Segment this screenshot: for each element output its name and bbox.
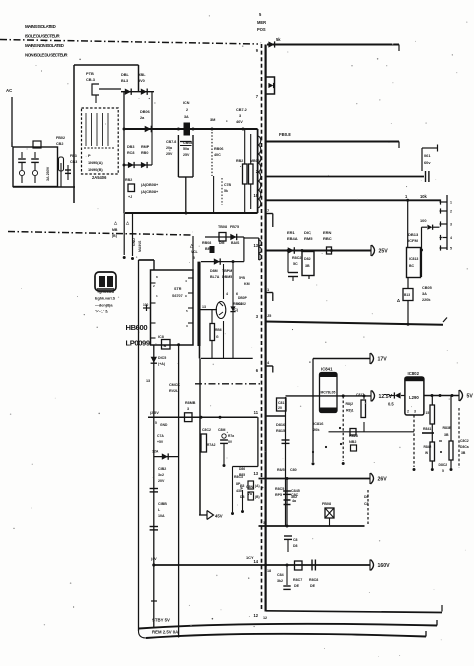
svg-text:14: 14	[253, 559, 258, 564]
svg-text:S6707: S6707	[172, 294, 183, 298]
svg-text:CIB2: CIB2	[158, 467, 166, 471]
svg-text:5V0: 5V0	[138, 79, 145, 83]
svg-text:R8)1: R8)1	[346, 409, 354, 413]
svg-text:220k: 220k	[422, 298, 431, 302]
svg-text:R8C3: R8C3	[234, 475, 243, 479]
svg-text:RP5: RP5	[275, 493, 282, 497]
svg-text:D8: D8	[293, 544, 298, 548]
svg-text:RB06: RB06	[214, 147, 223, 151]
svg-text:(B): (B)	[112, 234, 117, 238]
svg-text:IC841: IC841	[321, 367, 333, 372]
svg-text:R8MB: R8MB	[185, 401, 196, 405]
svg-text:CB7.2: CB7.2	[236, 108, 247, 112]
svg-text:5V: 5V	[228, 440, 233, 444]
svg-text:3: 3	[256, 314, 259, 319]
svg-text:GND: GND	[160, 423, 168, 427]
svg-text:+5V: +5V	[157, 440, 164, 444]
svg-text:13: 13	[253, 471, 258, 476]
svg-text:2A5406: 2A5406	[92, 175, 107, 180]
svg-text:3: 3	[186, 324, 188, 328]
svg-text:RBC: RBC	[323, 236, 332, 241]
svg-text:D8: D8	[364, 495, 369, 499]
svg-text:12: 12	[253, 613, 258, 618]
svg-text:100: 100	[143, 303, 149, 307]
svg-text:MAINS ISOLATED: MAINS ISOLATED	[25, 24, 56, 29]
svg-text:DB3: DB3	[127, 145, 134, 149]
svg-text:(A)DB08+: (A)DB08+	[141, 183, 159, 187]
svg-text:XBL: XBL	[138, 73, 146, 77]
svg-text:PTB: PTB	[86, 71, 94, 76]
svg-text:5: 5	[155, 421, 157, 425]
svg-text:3: 3	[450, 223, 452, 227]
svg-text:3: 3	[239, 114, 241, 118]
svg-text:R841: R841	[423, 427, 431, 431]
svg-text:G: G	[216, 335, 219, 339]
svg-text:—denjß|a: —denjß|a	[95, 303, 113, 308]
svg-text:4: 4	[267, 360, 270, 365]
svg-text:20k: 20k	[313, 427, 320, 432]
svg-text:8: 8	[156, 275, 158, 279]
svg-text:DBM5: DBM5	[222, 275, 232, 279]
svg-text:3B: 3B	[305, 264, 310, 268]
svg-text:13: 13	[146, 379, 150, 383]
svg-text:1: 1	[267, 287, 270, 292]
svg-text:DM: DM	[219, 241, 225, 245]
svg-text:NON ISOLE DU SECTEUR: NON ISOLE DU SECTEUR	[25, 53, 68, 58]
svg-text:FB02: FB02	[56, 136, 65, 140]
svg-text:(+A): (+A)	[158, 362, 166, 366]
svg-text:3B: 3B	[444, 433, 449, 437]
svg-text:FB08: FB08	[322, 502, 331, 506]
svg-text:REM 2.5V 0A: REM 2.5V 0A	[152, 630, 178, 635]
svg-text:MC78L05: MC78L05	[321, 391, 336, 395]
svg-text:(4V: (4V	[151, 557, 157, 561]
svg-text:45V: 45V	[215, 514, 223, 519]
svg-text:1N90(B): 1N90(B)	[88, 167, 103, 172]
svg-text:C7B: C7B	[224, 183, 231, 187]
svg-text:C7A: C7A	[157, 434, 164, 438]
svg-text:DE: DE	[294, 584, 300, 588]
svg-text:D86: D86	[239, 467, 245, 471]
svg-text:9: 9	[185, 294, 187, 298]
svg-text:HB600: HB600	[126, 323, 148, 332]
svg-text:DB13: DB13	[408, 232, 419, 237]
svg-text:17V: 17V	[378, 357, 388, 363]
svg-text:6: 6	[256, 368, 259, 373]
svg-text:CIBB: CIBB	[158, 502, 167, 506]
svg-text:C202: C202	[238, 302, 246, 306]
svg-text:3c2: 3c2	[158, 473, 164, 477]
svg-text:20a: 20a	[166, 146, 173, 150]
svg-text:CB2: CB2	[56, 142, 63, 146]
svg-text:C8C2: C8C2	[460, 439, 469, 443]
svg-text:7a: 7a	[248, 492, 252, 496]
svg-text:50a: 50a	[183, 147, 190, 151]
svg-text:5: 5	[259, 12, 262, 17]
svg-text:DBL: DBL	[121, 73, 129, 77]
svg-text:DE: DE	[310, 584, 316, 588]
svg-text:BL7A: BL7A	[210, 275, 220, 279]
svg-text:FB75: FB75	[230, 225, 239, 229]
svg-text:5k: 5k	[276, 37, 281, 42]
svg-text:3: 3	[414, 410, 416, 414]
svg-text:P: P	[88, 153, 91, 158]
svg-text:3B: 3B	[461, 451, 466, 455]
svg-text:D8Ca: D8Ca	[460, 445, 469, 449]
svg-text:GND: GND	[132, 238, 136, 246]
svg-text:3M: 3M	[210, 117, 215, 122]
svg-text:NB2: NB2	[349, 440, 356, 444]
svg-text:100: 100	[420, 218, 427, 223]
svg-text:CB7.8: CB7.8	[166, 140, 176, 144]
svg-text:B13: B13	[404, 293, 410, 297]
svg-text:C8C2: C8C2	[202, 428, 211, 432]
svg-text:VCL: VCL	[191, 250, 198, 254]
svg-text:EB4A: EB4A	[287, 236, 298, 241]
svg-text:KM: KM	[244, 282, 250, 286]
svg-text:IC816: IC816	[313, 421, 324, 426]
svg-text:Δ: Δ	[397, 298, 400, 303]
svg-text:MAINS NON ISOLATED: MAINS NON ISOLATED	[25, 43, 64, 48]
svg-text:△: △	[125, 220, 130, 225]
svg-text:(C): (C)	[233, 308, 239, 312]
svg-text:BC: BC	[409, 264, 415, 268]
svg-text:FB0.8: FB0.8	[279, 132, 291, 137]
svg-text:MB: MB	[112, 228, 118, 232]
svg-text:R815: R815	[276, 429, 285, 433]
svg-text:60v: 60v	[424, 160, 431, 165]
svg-text:D8M: D8M	[210, 269, 218, 273]
svg-text:4: 4	[450, 236, 452, 240]
svg-text:RC8: RC8	[127, 151, 134, 155]
svg-text:4: 4	[185, 279, 187, 283]
svg-text:ER1: ER1	[287, 230, 296, 235]
svg-text:R8/5: R8/5	[277, 468, 285, 472]
svg-text:RB2: RB2	[125, 178, 132, 182]
svg-text:RB6: RB6	[215, 328, 222, 332]
svg-text:2a: 2a	[140, 116, 145, 120]
svg-text:RB2: RB2	[236, 159, 243, 163]
svg-text:3k2: 3k2	[277, 579, 283, 583]
svg-text:W: W	[425, 451, 429, 455]
svg-text:BAIS: BAIS	[231, 241, 240, 245]
svg-text:2: 2	[153, 284, 155, 288]
svg-text:D8C2: D8C2	[439, 463, 448, 467]
svg-text:5: 5	[450, 247, 452, 251]
svg-text:J5: J5	[267, 313, 272, 318]
svg-text:20: 20	[278, 406, 282, 410]
svg-text:(2.5V: (2.5V	[150, 411, 159, 415]
svg-text:4a: 4a	[292, 499, 297, 503]
svg-text:2: 2	[450, 210, 452, 214]
svg-text:R7a: R7a	[228, 434, 234, 438]
svg-text:B: B	[164, 343, 167, 348]
svg-text:25V: 25V	[379, 249, 389, 255]
svg-text:5k: 5k	[224, 189, 228, 193]
svg-text:RMP: RMP	[141, 145, 150, 149]
svg-text:△: △	[113, 220, 118, 225]
svg-text:C8: C8	[364, 502, 369, 506]
svg-text:POS: POS	[257, 27, 266, 32]
svg-text:CB05: CB05	[422, 286, 432, 290]
svg-text:STR: STR	[174, 287, 182, 291]
svg-text:IC813: IC813	[409, 257, 418, 261]
svg-text:5V: 5V	[467, 394, 474, 400]
svg-text:5: 5	[442, 469, 444, 473]
svg-text:46V: 46V	[236, 120, 243, 124]
svg-text:Tghlcstcd: Tghlcstcd	[97, 290, 114, 294]
svg-text:12A: 12A	[152, 450, 159, 454]
svg-text:DB06: DB06	[140, 110, 150, 114]
svg-text:13: 13	[253, 243, 258, 248]
svg-text:1N90(A): 1N90(A)	[88, 160, 103, 165]
svg-text:3A 250V: 3A 250V	[46, 166, 50, 181]
svg-text:160V: 160V	[378, 563, 391, 569]
svg-text:MAINS: MAINS	[138, 240, 142, 252]
svg-text:13: 13	[202, 305, 206, 309]
svg-text:3A: 3A	[422, 292, 427, 296]
svg-text:R828: R828	[349, 434, 358, 438]
svg-text:ERN: ERN	[323, 230, 332, 235]
svg-text:R8C7: R8C7	[293, 578, 302, 582]
svg-text:25V: 25V	[183, 153, 190, 157]
svg-text:18: 18	[267, 569, 271, 573]
svg-text:R7A2: R7A2	[207, 443, 216, 447]
svg-text:12: 12	[263, 616, 267, 620]
svg-text:20V: 20V	[158, 479, 165, 483]
svg-text:L290: L290	[409, 395, 419, 400]
svg-text:RV2L: RV2L	[169, 389, 179, 393]
svg-text:25V: 25V	[166, 152, 173, 156]
svg-text:C84: C84	[277, 573, 284, 577]
svg-text:R8(2: R8(2	[346, 402, 354, 406]
svg-text:061: 061	[424, 153, 431, 158]
svg-text:CB.3: CB.3	[86, 77, 96, 82]
svg-text:26V: 26V	[378, 477, 388, 483]
svg-text:C8C: C8C	[291, 493, 299, 497]
svg-text:C8N: C8N	[246, 485, 253, 489]
svg-text:R8C2: R8C2	[292, 256, 301, 260]
svg-text:1CY: 1CY	[246, 555, 254, 560]
svg-text:3: 3	[187, 407, 189, 411]
svg-text:IC8: IC8	[158, 335, 164, 339]
svg-text:2: 2	[186, 108, 188, 112]
svg-text:R842: R842	[424, 445, 432, 449]
svg-text:3A: 3A	[184, 115, 189, 119]
svg-text:+: +	[262, 485, 265, 490]
svg-text:ISOLE DU SECTEUR: ISOLE DU SECTEUR	[25, 34, 61, 39]
svg-text:LP0099: LP0099	[126, 339, 150, 348]
svg-text:BL3: BL3	[121, 79, 128, 83]
svg-text:C8M: C8M	[218, 428, 225, 432]
svg-text:Eghk.varl.S: Eghk.varl.S	[95, 297, 116, 301]
svg-text:D816: D816	[276, 423, 285, 427]
svg-text:DB0P: DB0P	[238, 296, 248, 300]
svg-text:R8C5: R8C5	[275, 487, 284, 491]
svg-text:3: 3	[263, 521, 265, 525]
svg-text:R8C8: R8C8	[309, 578, 318, 582]
svg-text:5: 5	[186, 309, 188, 313]
svg-text:L: L	[158, 508, 161, 512]
svg-text:ICFM: ICFM	[408, 238, 418, 243]
svg-text:9: 9	[256, 48, 259, 53]
svg-text:+J: +J	[128, 195, 132, 199]
svg-text:7: 7	[256, 94, 259, 99]
svg-text:TBPM: TBPM	[222, 269, 232, 273]
svg-text:4: 4	[226, 292, 228, 296]
svg-text:DIC5: DIC5	[158, 356, 166, 360]
svg-text:C8: C8	[293, 538, 298, 542]
svg-text:0.5: 0.5	[388, 402, 394, 407]
svg-text:IC802: IC802	[408, 371, 420, 376]
svg-text:5C: 5C	[293, 262, 298, 266]
svg-text:TB08: TB08	[218, 225, 227, 229]
svg-text:5*B: 5*B	[239, 276, 245, 280]
svg-text:11: 11	[254, 410, 259, 415]
svg-text:2: 2	[407, 410, 409, 414]
svg-text:(B): (B)	[255, 495, 260, 499]
svg-text:RB08: RB08	[202, 241, 211, 245]
svg-text:15: 15	[426, 411, 430, 415]
svg-text:(A): (A)	[255, 484, 260, 488]
svg-text:C80: C80	[290, 468, 297, 472]
svg-text:C81: C81	[278, 401, 284, 405]
svg-text:D82: D82	[304, 257, 311, 261]
svg-text:10A: 10A	[158, 514, 165, 518]
svg-text:RM5: RM5	[304, 236, 313, 241]
svg-text:AC: AC	[6, 88, 12, 93]
svg-text:1: 1	[405, 194, 408, 199]
svg-text:RB0: RB0	[141, 151, 148, 155]
svg-text:MER: MER	[257, 20, 266, 25]
svg-text:1: 1	[450, 201, 452, 205]
svg-text:7: 7	[267, 208, 269, 213]
svg-text:STBY 5V: STBY 5V	[152, 618, 170, 623]
svg-text:10k: 10k	[420, 194, 428, 199]
svg-text:(A)CB08+: (A)CB08+	[141, 190, 159, 194]
svg-text:'>'~:.' '∆: '>'~:.' '∆	[95, 310, 109, 314]
svg-text:40C: 40C	[214, 153, 221, 157]
svg-text:ICN: ICN	[183, 101, 190, 105]
svg-text:1: 1	[156, 294, 158, 298]
